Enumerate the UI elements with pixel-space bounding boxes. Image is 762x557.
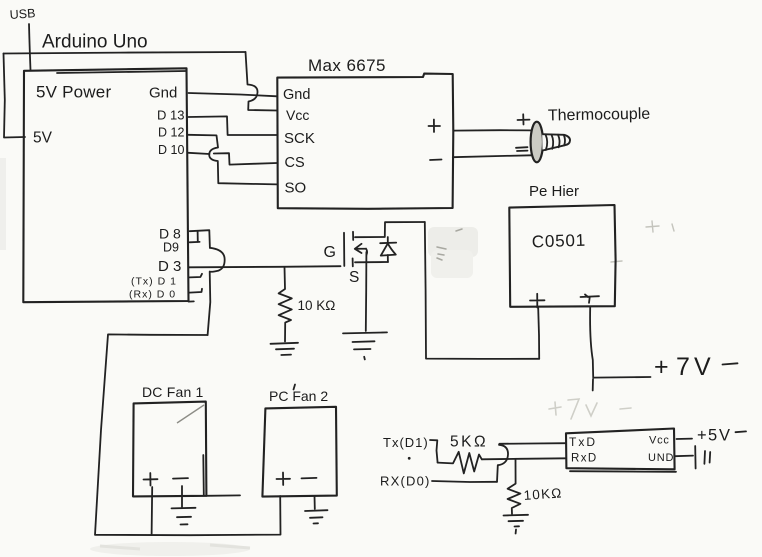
battery cell marks — [695, 446, 710, 469]
wire USB drop — [29, 24, 31, 70]
svg-text:5V: 5V — [33, 130, 53, 147]
svg-text:UND: UND — [648, 452, 674, 464]
component DC Fan 2 box — [262, 407, 336, 497]
svg-text:10 KΩ: 10 KΩ — [298, 298, 336, 313]
wire Peltier + down to drain loop — [538, 308, 539, 359]
wire source horizontal to diode anode — [355, 261, 388, 263]
bottom left smudge — [90, 542, 250, 556]
svg-text:SCK: SCK — [284, 130, 315, 147]
component DC Fan 1 box — [133, 402, 206, 497]
node + label at thermocouple — [518, 114, 530, 124]
svg-text:D 8: D 8 — [159, 226, 181, 242]
transistor Q1 gate bar — [343, 233, 345, 266]
svg-text:D9: D9 — [163, 241, 179, 255]
wire source down to ground — [365, 252, 368, 331]
wire D10 continue to CS — [214, 153, 277, 164]
pin + terminal (Fan2) — [277, 473, 291, 486]
svg-text:S: S — [349, 269, 359, 286]
erased ghost +7V text bottom centre — [549, 399, 631, 419]
svg-text:(Tx) D 1: (Tx) D 1 — [131, 276, 177, 288]
svg-text:5V Power: 5V Power — [36, 83, 111, 102]
transistor Q1 body arrow — [355, 244, 367, 255]
svg-text:D 13: D 13 — [157, 108, 184, 123]
node +7V minus dash — [723, 363, 738, 364]
wire fan feed: down-left-down-bottom bus — [95, 334, 281, 535]
svg-text:D 10: D 10 — [158, 143, 184, 157]
thermocouple TC1 body disc — [531, 122, 543, 163]
svg-text:PC Fan 2: PC Fan 2 — [269, 388, 328, 404]
pin - terminal (Peltier) — [581, 295, 600, 303]
resistor R1 10K gate pulldown — [279, 267, 292, 341]
thermocouple cone — [542, 134, 570, 150]
thermocouple cone stripes — [546, 134, 566, 150]
wire Vcc out — [677, 438, 693, 440]
pin (Rx)D0 stub — [190, 289, 203, 293]
svg-text:USB: USB — [9, 6, 36, 22]
resistor R2 5K series — [438, 452, 482, 474]
pin + terminal (Peltier) — [530, 294, 545, 308]
wire drain rail down right side to Peltier + — [425, 222, 539, 359]
accent mark above Fan 2 — [294, 385, 296, 390]
wire 5V top bus horizontal — [4, 52, 246, 54]
svg-text:(Rx) D 0: (Rx) D 0 — [129, 289, 176, 301]
resistor R3 10K pulldown branch — [508, 459, 521, 514]
wire R2 to module RxD — [482, 458, 566, 459]
svg-text:Thermocouple: Thermocouple — [548, 106, 651, 125]
svg-text:Gnd: Gnd — [283, 87, 310, 103]
node +5V minus dash — [736, 430, 747, 433]
wire GND out — [675, 455, 693, 458]
wire Max + to thermocouple — [453, 129, 531, 131]
svg-text:Pe Hier: Pe Hier — [529, 183, 579, 200]
scan shading left edge — [0, 158, 6, 250]
svg-text:CS: CS — [285, 155, 305, 171]
wire D13 to SCK — [189, 116, 278, 135]
ground (Fan2) — [305, 510, 328, 523]
component BT module box — [566, 429, 675, 470]
wire D12 to SO — [189, 135, 278, 185]
eraser smudge near max6675 bottom — [428, 227, 478, 257]
fan1 right edge double stroke — [202, 455, 205, 496]
svg-text:Vcc: Vcc — [649, 435, 670, 447]
ground (R1) — [271, 343, 299, 355]
ink dot — [408, 457, 411, 460]
svg-text:TxD: TxD — [569, 435, 597, 449]
svg-text:Max 6675: Max 6675 — [308, 56, 386, 75]
wire D9 stub joining D8 — [190, 241, 200, 243]
wire RX(D0) up with hop over RxD wire to module TxD — [497, 443, 566, 482]
diode D1 cathode link — [387, 237, 389, 243]
svg-text:C0501: C0501 — [531, 231, 586, 252]
wire Fan1 + to bottom bus — [151, 487, 154, 535]
pin - output symbol — [430, 159, 442, 162]
wire D8/D9 hop over D3 wire down to fans — [208, 248, 225, 335]
diode D1 triangle — [381, 243, 396, 255]
wire Max - to thermocouple — [453, 155, 531, 157]
svg-text:Vcc: Vcc — [286, 107, 309, 123]
component Peltier box — [509, 205, 615, 307]
svg-text:Gnd: Gnd — [149, 85, 177, 102]
transistor Q1 channel drain tick — [352, 232, 354, 240]
wire drain up to top rail — [355, 222, 425, 237]
svg-text:D 3: D 3 — [158, 258, 181, 275]
transistor Q1 channel source tick — [352, 258, 354, 266]
diode D1 anode link — [387, 255, 389, 262]
wire D3 to gate — [189, 266, 341, 267]
svg-text:5KΩ: 5KΩ — [450, 434, 488, 451]
svg-text:Arduino Uno: Arduino Uno — [42, 32, 148, 53]
pin (Tx)D1 stub — [190, 274, 202, 278]
wire 5V left drop to 5V pin — [4, 54, 26, 138]
wire Peltier - down and right to +7V — [590, 307, 650, 378]
pin - terminal (Fan2) — [302, 477, 317, 480]
pin - terminal (Fan1) — [173, 477, 188, 480]
svg-text:10KΩ: 10KΩ — [523, 485, 563, 503]
ground (Fan1) — [172, 508, 196, 525]
component Max6675 box U1 — [277, 74, 453, 209]
svg-text:SO: SO — [285, 180, 307, 197]
pin + output symbol — [429, 120, 441, 133]
wire 5V bus right drop with hop over Gnd wire — [246, 52, 278, 111]
wire RX(D0) right — [432, 481, 497, 482]
ground (MOSFET source) — [343, 332, 387, 359]
wire Fan1 - to ground — [181, 486, 183, 507]
diode D1 cathode bar — [380, 242, 396, 245]
wire Fan2 - to ground — [314, 496, 316, 509]
svg-text:RxD: RxD — [571, 453, 598, 465]
svg-text:G: G — [324, 244, 336, 261]
svg-text:Tx(D1): Tx(D1) — [383, 435, 429, 450]
pin + terminal (Fan1) — [144, 473, 158, 486]
ground (R3) — [504, 515, 529, 534]
fan1 bottom edge overshoot — [206, 494, 240, 496]
wire D8/D9 link rectangle — [197, 231, 199, 242]
svg-text:D 12: D 12 — [158, 126, 184, 140]
faint pencil plus marks — [611, 221, 674, 262]
wire D10 to CS with hop over D12 wire — [189, 153, 210, 154]
node - label at thermocouple (double dash) — [516, 147, 528, 151]
wire doubled top edge stroke — [57, 71, 186, 73]
wire Tx(D1) hook to R2 — [430, 440, 438, 463]
svg-text:DC Fan 1: DC Fan 1 — [142, 384, 204, 400]
wire D8 hook — [190, 230, 210, 248]
svg-text:+7V: +7V — [654, 353, 711, 381]
svg-text:RX(D0): RX(D0) — [380, 474, 431, 489]
component Arduino Uno box — [23, 68, 188, 302]
wire Gnd to Max6675 Gnd — [189, 93, 278, 96]
svg-text:+5V: +5V — [697, 427, 730, 445]
fan1 crease mark — [177, 405, 204, 423]
